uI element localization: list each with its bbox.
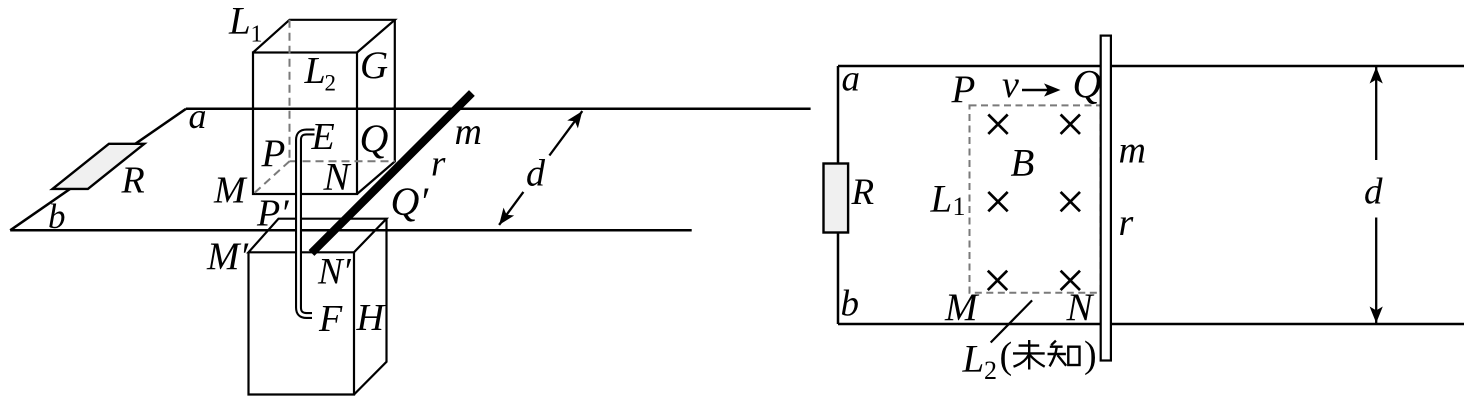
lower box right face	[354, 219, 387, 395]
distance arrow d (left diagram) segment lower	[499, 192, 523, 225]
svg-text:Q: Q	[360, 116, 389, 161]
svg-text:m: m	[455, 111, 482, 153]
svg-text:N: N	[323, 156, 352, 199]
svg-text:b: b	[48, 197, 66, 236]
wire EF outer (black tube)	[299, 132, 315, 316]
flux cross x3	[988, 192, 1007, 211]
svg-text:): )	[1084, 334, 1097, 376]
flux cross x6	[1061, 271, 1080, 290]
distance arrow d (right) upper segment	[1375, 67, 1377, 160]
svg-text:r: r	[431, 144, 446, 185]
sliding rod m r (left diagram thick rod)	[312, 93, 472, 253]
svg-text:r: r	[1119, 202, 1134, 244]
svg-text:L: L	[962, 338, 985, 381]
upper box top face	[253, 20, 395, 53]
svg-text:1: 1	[251, 22, 263, 48]
lower box top face	[249, 219, 387, 253]
rail b (left diagram bottom rail)	[10, 229, 692, 232]
resistor R (left diagram, parallelogram on plane edge)	[53, 144, 145, 189]
svg-text:L: L	[304, 50, 326, 92]
distance arrow d (left diagram) segment upper	[549, 111, 582, 155]
svg-text:2: 2	[984, 356, 997, 385]
arrowhead down (right d arrow)	[1370, 307, 1383, 324]
svg-text:R: R	[851, 172, 875, 213]
flux cross x4	[1061, 192, 1080, 211]
upper box right face	[357, 20, 395, 194]
velocity arrow v	[1022, 89, 1048, 91]
wire EF inner (white core)	[299, 132, 315, 316]
right circuit: bottom rail	[838, 323, 1464, 326]
svg-text:d: d	[526, 153, 546, 195]
rail a (left diagram top rail)	[186, 108, 811, 111]
svg-text:H: H	[356, 297, 387, 339]
svg-text:M′: M′	[206, 235, 248, 278]
svg-text:P′: P′	[256, 193, 289, 235]
svg-text:M: M	[213, 170, 248, 212]
svg-text:Q: Q	[1073, 62, 1102, 107]
svg-text:L: L	[930, 178, 953, 221]
lower box front face	[249, 252, 355, 394]
rod m r (right circuit, vertical bar)	[1101, 36, 1111, 361]
magnetic field dashed boundary PQNM	[970, 105, 1101, 292]
velocity arrowhead	[1044, 83, 1061, 96]
svg-text:L: L	[228, 0, 251, 43]
svg-text:b: b	[841, 284, 860, 325]
svg-text:v: v	[1002, 64, 1019, 106]
arrowhead up (right d arrow)	[1370, 67, 1383, 84]
right circuit: left wire	[837, 66, 840, 324]
right circuit: top rail	[838, 65, 1464, 68]
svg-text:P: P	[951, 68, 976, 111]
flux cross x1	[988, 115, 1007, 134]
svg-text:2: 2	[325, 71, 337, 96]
svg-text:R: R	[121, 160, 145, 202]
svg-text:N: N	[1066, 286, 1095, 329]
svg-text:(: (	[1000, 335, 1013, 377]
resistor R (right circuit)	[824, 164, 849, 233]
flux cross x2	[1061, 115, 1080, 134]
hanzi ZHI (know)	[1048, 341, 1080, 367]
distance arrow d (right) lower segment	[1375, 218, 1377, 324]
svg-text:E: E	[311, 116, 335, 158]
inclined plane left edge	[10, 109, 186, 231]
svg-text:N′: N′	[317, 252, 352, 293]
hanzi WEI (unknown)	[1013, 340, 1045, 370]
svg-text:m: m	[1119, 129, 1146, 171]
svg-text:Q′: Q′	[391, 179, 430, 224]
svg-text:a: a	[842, 59, 861, 100]
arrowhead bottom (left d arrow)	[494, 208, 514, 229]
pointer line to L2 label	[991, 300, 1032, 342]
upper box hidden edge diagonal (dashed)	[253, 161, 289, 194]
flux cross x5	[988, 271, 1007, 290]
svg-text:F: F	[318, 298, 343, 340]
svg-text:P: P	[261, 132, 286, 175]
svg-text:B: B	[1011, 142, 1035, 185]
upper box hidden edge vertical (dashed)	[289, 20, 291, 161]
svg-text:M: M	[944, 286, 980, 329]
svg-text:d: d	[1364, 172, 1383, 213]
upper box hidden edge horizontal (dashed)	[290, 160, 395, 162]
upper box front face PQNM region	[253, 53, 357, 195]
arrowhead top (left d arrow)	[567, 107, 587, 128]
svg-text:1: 1	[953, 192, 966, 221]
svg-text:G: G	[360, 44, 388, 87]
svg-text:a: a	[189, 96, 207, 136]
